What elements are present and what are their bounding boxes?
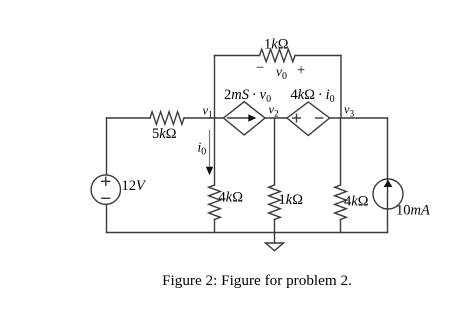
svg-text:v1: v1	[203, 104, 213, 120]
wire: top branch right segment from 1k resistor	[295, 55, 341, 57]
svg-text:4kΩ: 4kΩ	[344, 194, 369, 210]
svg-text:1kΩ: 1kΩ	[279, 192, 304, 208]
svg-text:v2: v2	[269, 103, 279, 119]
arrowhead of i0	[206, 167, 213, 176]
svg-text:+: +	[297, 63, 305, 79]
plus sign inside U2	[293, 117, 301, 119]
wire: main horizontal from left corner to 5k resistor	[107, 117, 151, 119]
wire: from source U2 to node v3 and right corner	[330, 117, 388, 119]
resistor 4k (below v1, vertical)	[209, 185, 221, 220]
svg-text:−: −	[256, 60, 264, 76]
arrow inside dependent source U1	[228, 117, 251, 119]
svg-text:Figure 2: Figure for problem 2: Figure 2: Figure for problem 2.	[162, 272, 352, 289]
svg-text:v0: v0	[276, 64, 287, 82]
resistor 4k (below v3, vertical)	[335, 185, 347, 220]
plus sign inside 12V source	[102, 180, 110, 182]
current source I1 (10mA) circle	[373, 179, 403, 209]
wire: 5k resistor to node v1 and dependent source 1	[184, 117, 224, 119]
wire: branch below v3 lower segment	[340, 220, 342, 233]
svg-text:4kΩ: 4kΩ	[219, 190, 244, 206]
wire: top-left vertical from node v1 up to 1k branch	[214, 56, 216, 119]
svg-text:i0: i0	[198, 140, 207, 158]
wire: branch below v1 lower segment	[214, 220, 216, 233]
wire: branch below v2 lower segment	[274, 220, 276, 233]
wire: left vertical from 12V source bottom to bottom rail	[106, 204, 108, 232]
wire: branch below v3 upper segment	[340, 118, 342, 185]
svg-text:v3: v3	[344, 103, 355, 119]
resistor 1k (below v2, vertical)	[269, 185, 281, 220]
minus sign inside U2	[316, 117, 323, 119]
arrowhead inside 10mA source (pointing up)	[384, 180, 393, 187]
wire: between source U1 and node v2	[265, 117, 287, 119]
svg-text:10mA: 10mA	[396, 203, 430, 219]
resistor 5k (horizontal)	[150, 112, 184, 125]
current arrow i0 (gray shaft)	[209, 131, 211, 169]
minus sign inside 12V source	[102, 197, 110, 199]
wire: branch below v2 upper segment	[274, 118, 276, 185]
ground triangle	[266, 243, 284, 251]
svg-text:1kΩ: 1kΩ	[264, 37, 289, 53]
svg-text:2mS · v0: 2mS · v0	[224, 87, 271, 105]
wire: top-right vertical down to node v3	[340, 56, 342, 119]
wire: right vertical through 10mA source	[387, 118, 389, 233]
wire: bottom rail	[107, 232, 388, 234]
dependent source U1 diamond (2mS*v0)	[224, 102, 266, 135]
svg-text:12V: 12V	[122, 178, 148, 194]
wire: branch below v1 upper segment	[214, 118, 216, 185]
ground stub	[274, 233, 276, 244]
voltage source V1 (12V) circle	[91, 175, 120, 204]
wire: top branch left segment to 1k resistor	[215, 55, 260, 57]
resistor 1k (top horizontal)	[260, 49, 296, 62]
wire: left vertical from top corner down to 12V source top	[106, 118, 108, 175]
svg-text:5kΩ: 5kΩ	[152, 126, 177, 142]
dependent source U2 diamond (4kOhm*i0)	[287, 102, 330, 136]
svg-text:4kΩ · i0: 4kΩ · i0	[291, 87, 335, 105]
